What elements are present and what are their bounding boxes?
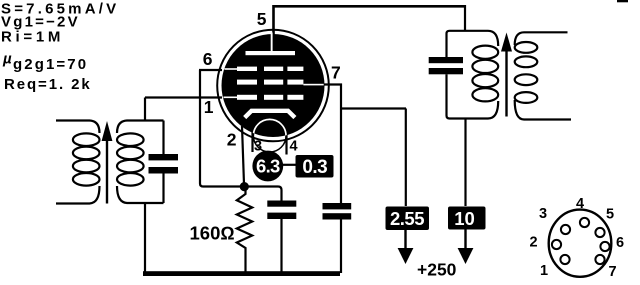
wire heater pin4: [285, 127, 287, 155]
tube U1 black disc: [222, 34, 325, 137]
inductor L4 output transformer secondary: [515, 32, 571, 119]
pin6 internal lead: [225, 68, 238, 70]
wire stub top right corner: [617, 0, 628, 2]
capacitor C4 screen bypass plates: [323, 203, 352, 220]
svg-text:5: 5: [257, 9, 267, 29]
svg-text:Ri=1M: Ri=1M: [1, 29, 64, 46]
arrow anode current: [464, 230, 466, 251]
wire secondary top lead: [117, 121, 164, 134]
core arrow input transformer: [102, 121, 113, 204]
svg-text:160Ω: 160Ω: [190, 223, 235, 244]
pin7 internal lead: [303, 84, 323, 86]
anode plate: [246, 51, 296, 55]
wire secondary bottom lead: [515, 100, 571, 120]
wire primary top lead: [56, 121, 100, 134]
grid g1 row: [237, 95, 257, 100]
inductor L3 output transformer primary: [472, 46, 498, 102]
core arrow output transformer: [501, 33, 512, 117]
svg-text:4: 4: [290, 139, 298, 155]
svg-text:2: 2: [227, 130, 237, 150]
wire cathode cap to rail: [280, 219, 282, 273]
inductor L2 input transformer secondary: [117, 121, 164, 204]
wire pin2 cathode lead: [242, 126, 244, 184]
wire B+ feed down to output tank top: [464, 5, 466, 31]
capacitor C1 input tank plates: [149, 154, 179, 174]
ground rail: [143, 271, 340, 276]
svg-text:10: 10: [454, 208, 475, 229]
svg-text:2: 2: [529, 235, 537, 251]
svg-text:1: 1: [540, 263, 548, 279]
inductor L1 input transformer primary: [56, 121, 100, 204]
grid g2 row: [237, 80, 257, 85]
output tank top lead: [447, 31, 499, 57]
pin1 internal lead: [224, 97, 238, 99]
grid g3 row: [237, 67, 257, 71]
svg-text:7: 7: [608, 264, 616, 280]
node cathode junction: [240, 182, 249, 191]
wire tank bottom to ground rail: [144, 203, 146, 272]
svg-text:1: 1: [204, 97, 214, 117]
svg-text:Req=1. 2k: Req=1. 2k: [4, 76, 92, 93]
svg-text:+250: +250: [417, 260, 457, 280]
label box 10: [448, 207, 486, 230]
anode lead: [271, 33, 273, 53]
wire grid vertical pin6-pin1-cathode corner: [200, 70, 240, 187]
arrow screen current: [404, 230, 406, 250]
svg-text:2.55: 2.55: [390, 208, 424, 229]
svg-text:0.3: 0.3: [302, 157, 327, 178]
svg-text:g2g1=70: g2g1=70: [13, 56, 88, 73]
svg-text:3: 3: [539, 206, 547, 222]
heater current box 0.3A: [296, 155, 334, 178]
wire B+ feed to 10 box: [464, 119, 466, 207]
wire secondary top lead: [515, 32, 568, 45]
svg-text:µ: µ: [2, 51, 12, 68]
wire screen cap to rail: [340, 220, 342, 274]
wire anode pin5 to output tank: [274, 6, 466, 36]
capacitor C2 output tank plates: [429, 57, 463, 74]
svg-text:6.3: 6.3: [256, 156, 280, 177]
wire cathode junction to bypass cap: [244, 187, 282, 202]
wire heater pin3: [251, 128, 253, 152]
tube U1 heater circle outer part: [253, 119, 286, 152]
svg-text:6: 6: [203, 49, 213, 69]
svg-text:4: 4: [576, 196, 584, 212]
socket pin holes: [552, 218, 610, 264]
wire grid riser to pin1 level: [144, 98, 146, 121]
svg-text:6: 6: [616, 235, 624, 251]
tube U1 envelope: [217, 30, 329, 142]
wire primary bottom lead: [56, 186, 100, 204]
heater supply blob 6.3V: [252, 151, 283, 182]
wire screen pin7 branch: [324, 84, 406, 207]
wire pin6 stub: [199, 69, 222, 71]
svg-text:7: 7: [331, 63, 341, 83]
socket base view circle: [549, 210, 612, 277]
socket pin numbers: [529, 196, 624, 280]
label box 2.55: [386, 207, 430, 231]
resistor R1 160 ohm: [237, 189, 252, 273]
capacitor C3 cathode bypass plates: [267, 201, 296, 220]
tube U1 white internals: [224, 33, 324, 100]
wire tank cap sides: [145, 121, 164, 273]
wire input to pins 6/1: [145, 96, 222, 98]
wire secondary bottom lead: [117, 186, 164, 203]
svg-text:3: 3: [254, 139, 262, 155]
output tank lower-left side: [447, 74, 499, 118]
wire blob to box: [282, 164, 296, 166]
svg-text:5: 5: [606, 207, 614, 223]
cathode: [245, 111, 295, 118]
